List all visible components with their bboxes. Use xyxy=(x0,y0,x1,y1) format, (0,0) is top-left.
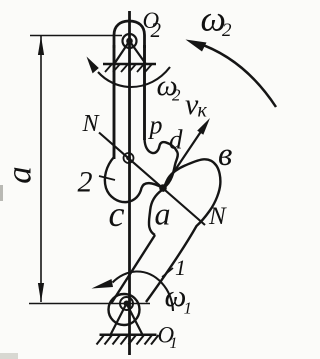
pitch point P circle xyxy=(124,153,134,163)
svg-text:c: c xyxy=(109,194,125,234)
link 2 body right edge xyxy=(143,45,146,140)
svg-text:a: a xyxy=(155,196,171,232)
bottom extension line xyxy=(29,303,150,305)
top extension line xyxy=(30,35,122,37)
omega2 arc near pivot xyxy=(98,67,170,87)
pivot O2 center dot xyxy=(126,38,133,45)
svg-text:2: 2 xyxy=(151,18,162,42)
omega2 arc arrowhead xyxy=(87,57,99,74)
pivot O1 ground line xyxy=(100,334,157,337)
svg-text:a: a xyxy=(0,166,39,184)
svg-text:1: 1 xyxy=(170,335,178,352)
bottom edge smudge xyxy=(0,353,18,359)
link 2 body (slotted arm) left edge xyxy=(113,45,116,159)
big omega2 arrowhead xyxy=(186,40,207,52)
svg-text:к: к xyxy=(198,100,208,122)
svg-text:в: в xyxy=(218,137,232,173)
pivot O2 hatching xyxy=(105,64,152,72)
svg-text:p: p xyxy=(148,111,163,140)
link 1 left edge xyxy=(112,235,156,303)
pivot O2 pin circle xyxy=(123,34,137,48)
big omega2 curved arrow top right xyxy=(196,43,276,108)
svg-text:2: 2 xyxy=(78,166,93,199)
svg-text:N: N xyxy=(82,111,101,137)
pivot O1 center dot xyxy=(124,301,130,307)
N-N line of action xyxy=(99,133,205,226)
link 1 tooth lobe (kidney, b) xyxy=(146,159,220,302)
link 2 tooth profile upper with d-hook xyxy=(145,139,178,188)
pivot O1 support triangle xyxy=(111,304,143,335)
contact point K dot xyxy=(159,184,167,192)
svg-text:1: 1 xyxy=(175,255,186,280)
dimension line a xyxy=(40,36,42,302)
pivot O1 pin circle xyxy=(120,297,133,310)
link 2 rounded cap xyxy=(114,21,145,48)
link 2 tooth profile lower (c) xyxy=(105,157,163,202)
dimension arrow down xyxy=(38,283,44,302)
link 1 root flank (a-lobe) xyxy=(149,190,162,235)
pivot O2 support triangle xyxy=(115,41,146,64)
dimension arrow up xyxy=(38,36,44,55)
svg-text:2: 2 xyxy=(222,20,232,41)
pivot O2 ground line xyxy=(103,63,156,65)
centerline O1-O2 xyxy=(128,11,131,355)
omega1 arc xyxy=(113,271,174,311)
svg-text:1: 1 xyxy=(184,299,193,318)
vk velocity arrow xyxy=(163,127,204,188)
omega1 arrowhead xyxy=(92,279,114,289)
link 1 hub circle xyxy=(109,294,140,325)
svg-text:d: d xyxy=(169,125,183,155)
edge smudge xyxy=(0,185,3,201)
pivot O1 hatching xyxy=(97,335,159,345)
svg-text:2: 2 xyxy=(172,86,181,105)
